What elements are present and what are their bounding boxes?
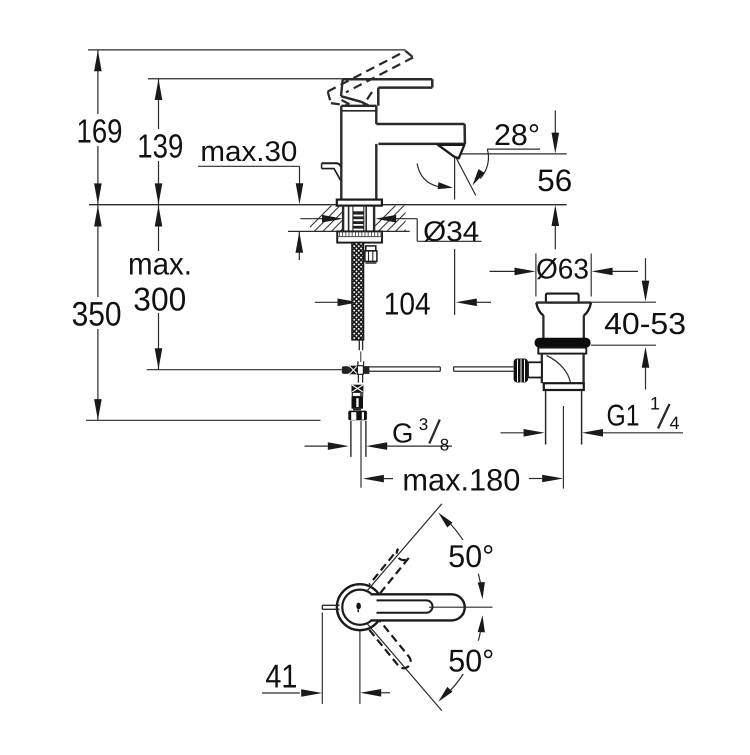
- adjuster barrel: [352, 397, 364, 409]
- rubber gasket: [535, 338, 591, 348]
- water stream 28deg line: [455, 157, 475, 196]
- svg-text:4: 4: [670, 413, 680, 433]
- hose end tube: [358, 340, 360, 350]
- dimension 56 line: [554, 111, 556, 134]
- knurled rod knob: [514, 359, 528, 383]
- G3/8 nut: [348, 411, 367, 421]
- label 350: [68, 297, 125, 329]
- svg-text:G1: G1: [607, 399, 640, 432]
- svg-text:40-53: 40-53: [604, 307, 686, 341]
- label 50deg lower: [445, 645, 497, 674]
- pop-up rod tee: [357, 361, 359, 365]
- dimension max.180 arrows: [363, 475, 384, 483]
- centerline dash: [360, 352, 362, 363]
- spout outlet (28deg aerator): [438, 145, 465, 159]
- supply pipe end reference line (350 datum): [86, 419, 321, 421]
- dimension 104 arrows: [315, 301, 338, 303]
- svg-text:139: 139: [137, 129, 183, 166]
- counter bottom line: [288, 230, 410, 232]
- svg-text:G: G: [392, 417, 413, 448]
- label max.30: [198, 137, 301, 164]
- dimension G1 1/4 arrows and shelf: [501, 432, 524, 434]
- spout arm: [376, 123, 464, 126]
- pull rod stub (top view): [322, 604, 339, 606]
- 50deg lower arc: [445, 672, 465, 697]
- dimension Ø34 arrows and leader: [300, 218, 322, 220]
- dimension 139 line: [158, 79, 160, 205]
- svg-text:169: 169: [77, 114, 123, 151]
- drain gasket bottom extension line (40-53): [591, 344, 656, 346]
- tee bottom stub: [357, 375, 359, 383]
- spout tip extension line: [454, 157, 456, 200]
- dimension 41 arrows: [262, 692, 300, 694]
- spout outlet level reference line: [459, 153, 567, 155]
- svg-text:max.: max.: [128, 246, 192, 281]
- faucet body: [340, 106, 342, 200]
- drain centerline: [562, 406, 564, 489]
- faucet shank: [348, 206, 350, 232]
- 28deg label shelf line: [487, 148, 540, 150]
- svg-text:8: 8: [440, 436, 449, 455]
- drain flange: [536, 301, 591, 303]
- pop-up rod guide below deck: [366, 246, 376, 251]
- 50deg rays: [367, 504, 442, 591]
- supply pipe: [350, 421, 352, 457]
- label 50deg upper: [445, 540, 497, 570]
- reference line top of handle (169 datum): [88, 49, 406, 51]
- 28deg leader curve with arrow: [480, 149, 488, 179]
- svg-text:1: 1: [650, 394, 660, 414]
- svg-text:50°: 50°: [448, 538, 494, 574]
- label max. 300: [124, 251, 196, 313]
- top view body circle: [337, 584, 383, 630]
- label 139: [134, 129, 186, 161]
- label Ø63: [537, 254, 590, 282]
- dimension 350 line: [97, 205, 99, 420]
- flow direction arc arrow: [417, 164, 438, 187]
- svg-text:3: 3: [419, 415, 428, 434]
- escutcheon base plate: [337, 200, 382, 206]
- top view lever: [371, 594, 465, 620]
- counter hatching right of hole: [368, 204, 431, 233]
- dimension 169 line: [97, 50, 99, 205]
- drain plug cap: [546, 294, 579, 303]
- threaded stud bands: [353, 211, 364, 214]
- max.30 leader shelf and arrows: [198, 165, 300, 167]
- tailpiece coupling ring: [544, 383, 584, 390]
- svg-text:Ø34: Ø34: [423, 216, 479, 248]
- svg-text:Ø63: Ø63: [536, 254, 589, 286]
- mounting washer and nut: [337, 231, 382, 242]
- svg-text:28°: 28°: [494, 119, 540, 152]
- rod to drain (with break): [369, 366, 440, 368]
- drain body: [541, 354, 543, 384]
- svg-text:50°: 50°: [448, 642, 494, 678]
- pop-up pull rod knob on body: [322, 163, 341, 166]
- drain flange top extension line (40-53): [585, 301, 656, 303]
- connector block under tee: [352, 385, 364, 393]
- svg-text:56: 56: [537, 163, 572, 198]
- pop-up rod reference line (max.300 datum): [147, 369, 342, 371]
- svg-text:104: 104: [384, 286, 431, 322]
- dimension 41 extension lines: [321, 613, 323, 704]
- counter hole walls: [342, 206, 344, 232]
- dashed lever -50deg (top view): [369, 621, 410, 668]
- lever neck: [341, 79, 343, 96]
- svg-text:max.180: max.180: [402, 462, 520, 497]
- screw hole mark: [356, 603, 361, 610]
- label 169: [73, 114, 125, 146]
- counter top line: [89, 204, 567, 206]
- svg-text:350: 350: [72, 296, 122, 334]
- faucet lever (solid): [343, 78, 433, 81]
- svg-text:max.30: max.30: [200, 136, 297, 168]
- knob stem: [528, 362, 542, 377]
- dashed lever +50deg (top view): [369, 549, 409, 594]
- reference line top of lever (139 datum): [148, 78, 343, 80]
- tailpiece tube G1 1/4: [545, 390, 547, 445]
- svg-text:300: 300: [133, 280, 186, 317]
- flange ring below gasket: [538, 348, 586, 354]
- label 56: [534, 165, 575, 194]
- dimension Ø63 arrows: [490, 270, 515, 272]
- dashed lever raised position: [328, 51, 406, 92]
- dimension Ø63 extension lines: [535, 254, 537, 297]
- dimension G 3/8 arrows and shelf: [305, 445, 328, 447]
- dimension 40-53 line: [645, 258, 647, 280]
- label 40-53: [601, 308, 689, 337]
- 50deg upper arc: [445, 518, 465, 543]
- faucet centerline extension (max.180): [360, 421, 362, 488]
- counter hatching left of hole: [304, 204, 376, 233]
- dimension max.300 line: [158, 205, 160, 369]
- svg-text:41: 41: [265, 658, 297, 695]
